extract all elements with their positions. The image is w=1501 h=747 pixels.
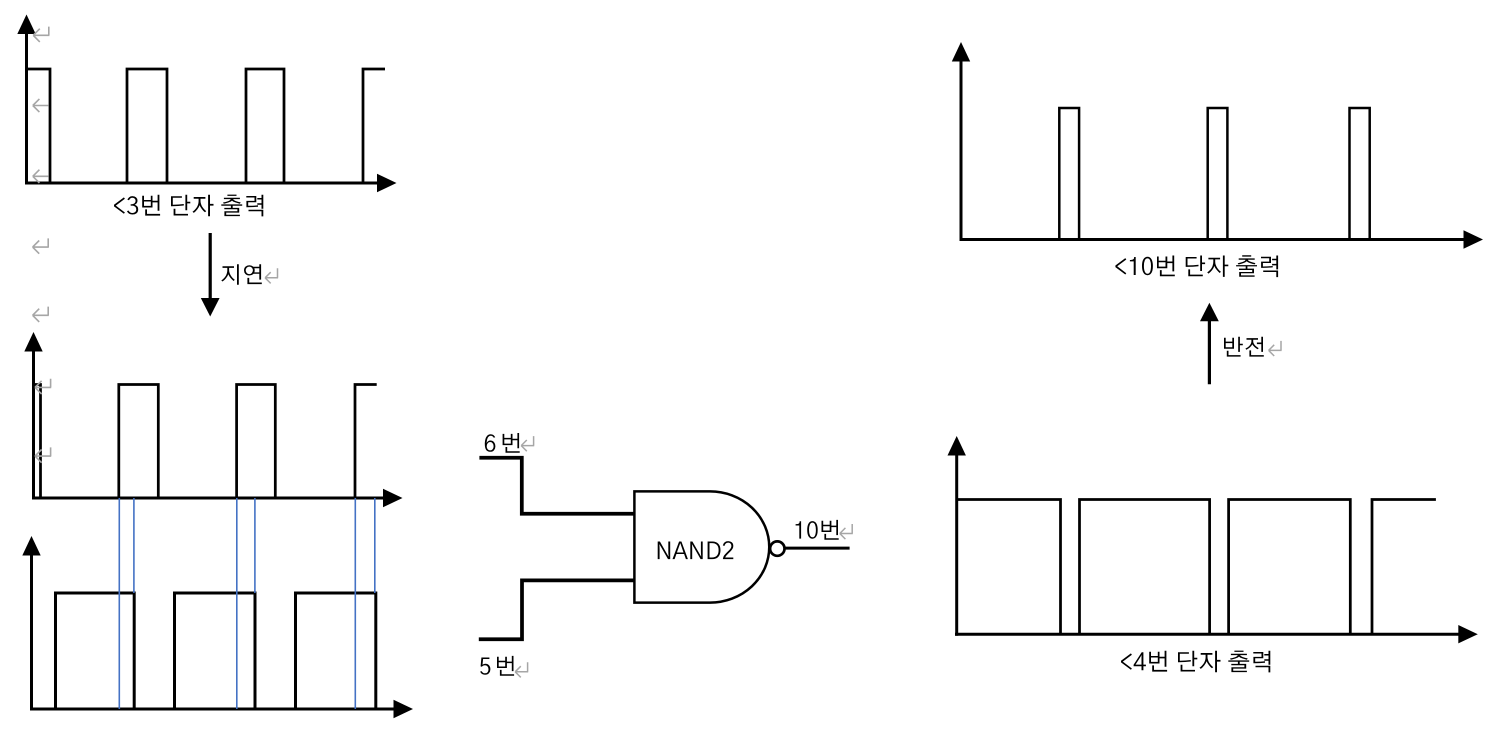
formatting mark (line break) margin y456 — [35, 447, 51, 462]
formatting mark after 10번 — [840, 524, 853, 539]
blue guide line pair 2 — [236, 498, 238, 709]
input wire 6번 (top) — [479, 458, 634, 514]
x-axis of waveform 4 — [960, 238, 1466, 241]
label: 5번 — [480, 656, 514, 676]
delay arrow (down) — [209, 233, 212, 299]
formatting mark after 지연 — [265, 268, 278, 283]
caption: <3번 단자 출력 — [114, 195, 263, 217]
x-axis of waveform 2 — [32, 497, 384, 500]
NAND gate U1 body — [634, 491, 769, 602]
waveform 2 pulse train — [34, 385, 377, 499]
waveform 3 pulse train — [56, 593, 376, 709]
formatting mark after 5번 — [515, 662, 528, 677]
formatting mark (left arrow) 2 — [33, 170, 49, 183]
label: 반전 — [1224, 337, 1264, 357]
formatting mark (left arrow) 1 — [33, 99, 49, 112]
label: 6번 — [485, 433, 520, 453]
formatting mark after 6번 — [521, 436, 534, 451]
label: 지연 — [221, 264, 261, 284]
formatting mark (line break) margin y315 — [33, 307, 49, 322]
formatting mark (line break) margin y387 — [35, 379, 51, 394]
output wire 10번 — [785, 547, 850, 550]
waveform 5 pulse train — [957, 500, 1436, 635]
y-axis of waveform 1 — [25, 33, 28, 185]
caption: <10번 단자 출력 — [1115, 255, 1278, 277]
x-axis of waveform 5 — [955, 633, 1460, 636]
formatting mark after 반전 — [1269, 341, 1282, 356]
label: NAND2 — [658, 541, 734, 559]
caption: <4번 단자 출력 — [1121, 651, 1270, 673]
x-axis of waveform 3 — [30, 708, 394, 711]
waveform 4 pulse train — [1059, 108, 1369, 240]
input wire 5번 (bottom) — [479, 580, 635, 639]
formatting mark (line break) top-left — [33, 27, 49, 42]
y-axis of waveform 3 — [30, 554, 33, 711]
x-axis of waveform 1 — [25, 182, 378, 185]
formatting mark (line break) margin y247 — [33, 238, 49, 253]
waveform 1 pulse train — [27, 69, 386, 183]
y-axis of waveform 4 — [960, 60, 963, 241]
invert arrow (up) — [1208, 320, 1211, 384]
label: 10번 — [796, 520, 839, 540]
NAND gate inversion bubble — [770, 541, 784, 555]
y-axis of waveform 5 — [955, 454, 958, 636]
y-axis of waveform 2 — [32, 350, 35, 500]
blue guide line pair 1 — [118, 498, 120, 709]
blue guide line pair 3 — [354, 498, 356, 709]
